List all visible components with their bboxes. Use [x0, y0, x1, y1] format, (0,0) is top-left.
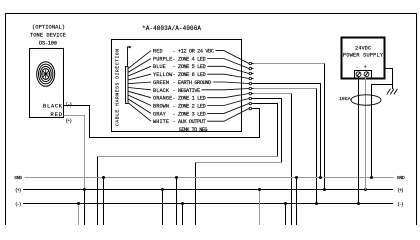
harness direction arrow — [128, 46, 132, 67]
svg-text:-: - — [173, 119, 176, 125]
svg-text:RED: RED — [51, 112, 63, 118]
svg-text:-: - — [173, 56, 176, 62]
wire R10 white aux to tone device black — [64, 106, 260, 138]
speaker symbol — [37, 62, 55, 87]
tone device DS-100 box — [30, 49, 64, 118]
18GA wire gauge ellipse — [351, 95, 381, 105]
wire R7 orange zone1 drop — [291, 94, 293, 226]
svg-text:-: - — [173, 49, 176, 55]
drop from plus x162 — [162, 190, 164, 226]
svg-text:*A-4003A/A-4006A: *A-4003A/A-4006A — [142, 25, 201, 32]
tone device terminal labels — [43, 101, 72, 123]
minus bus — [23, 203, 393, 205]
svg-text:YELLOW: YELLOW — [153, 72, 173, 78]
wire R5 green earth — [254, 84, 321, 178]
svg-text:BLACK: BLACK — [153, 88, 170, 94]
svg-text:GRAY: GRAY — [153, 111, 167, 117]
row tail wires to terminals — [202, 51, 249, 122]
svg-text:(-): (-) — [66, 101, 73, 107]
svg-text:-: - — [356, 65, 359, 71]
wire R7 orange zone1 horizontal — [254, 93, 292, 95]
svg-text:ORANGE: ORANGE — [153, 96, 172, 102]
plus bus — [23, 189, 393, 191]
svg-text:-: - — [173, 96, 176, 102]
drop from GND x176 — [176, 178, 178, 226]
psu minus wire to minus bus — [359, 69, 393, 204]
svg-text:GND: GND — [397, 175, 405, 181]
svg-text:-: - — [173, 80, 176, 86]
svg-text:RED: RED — [153, 49, 163, 55]
svg-text:-: - — [173, 111, 176, 117]
annunciator A-4003A/A-4006A box — [112, 40, 242, 132]
wire colour legend rows — [153, 49, 214, 133]
svg-text:-: - — [173, 64, 176, 70]
harness connector bar — [126, 67, 129, 104]
svg-text:(-): (-) — [397, 201, 404, 207]
GND bus — [23, 178, 394, 204]
svg-text:(+): (+) — [15, 187, 22, 193]
svg-text:POWER SUPPLY: POWER SUPPLY — [343, 52, 384, 58]
psu earth wire — [372, 69, 393, 178]
wire R6 black negative vertical to minus bus — [316, 89, 318, 204]
wire R1 red +V vertical to plus bus — [324, 64, 326, 190]
svg-text:24VDC: 24VDC — [355, 45, 371, 51]
wire R6 black negative horizontal — [254, 88, 317, 90]
svg-text:DS-100: DS-100 — [39, 40, 57, 46]
svg-text:+: + — [364, 65, 367, 71]
svg-text:ZONE 2 LED: ZONE 2 LED — [178, 104, 206, 110]
svg-text:ZONE 1 LED: ZONE 1 LED — [178, 96, 206, 102]
svg-text:18GA: 18GA — [339, 96, 351, 102]
wire R8 brown zone2 — [254, 99, 282, 163]
svg-text:(OPTIONAL): (OPTIONAL) — [32, 25, 65, 31]
svg-text:NEGATIVE: NEGATIVE — [178, 88, 200, 94]
svg-text:(-): (-) — [15, 201, 22, 207]
svg-text:(+): (+) — [397, 187, 404, 193]
wire tone device red to plus bus — [64, 116, 85, 190]
psu plus wire to plus bus — [365, 76, 367, 189]
junction dots — [77, 176, 373, 205]
drop from plus x259 gray — [259, 190, 261, 226]
drop wire from minus bus x78 — [79, 178, 297, 226]
psu terminal block — [355, 71, 372, 79]
24VDC power supply box — [342, 38, 385, 79]
bus labels — [14, 175, 405, 207]
connector fan wires — [128, 51, 151, 122]
svg-text:EARTH GROUND: EARTH GROUND — [178, 80, 211, 86]
svg-text:-: - — [173, 88, 176, 94]
svg-text:ZONE 3 LED: ZONE 3 LED — [178, 111, 206, 117]
drop from minus x285 — [285, 204, 287, 226]
svg-text:WHITE: WHITE — [153, 119, 169, 125]
svg-text:-: - — [173, 104, 176, 110]
wire R9 gray zone3 — [254, 104, 278, 157]
svg-text:BLACK: BLACK — [43, 103, 63, 109]
svg-text:+12 OR 24 VDC: +12 OR 24 VDC — [178, 49, 214, 55]
svg-text:CABLE HARNESS DIRECTION: CABLE HARNESS DIRECTION — [115, 49, 121, 126]
svg-text:(+): (+) — [66, 118, 73, 124]
svg-text:GND: GND — [14, 175, 22, 181]
wire R1 red +V horizontal — [64, 64, 325, 226]
drop from GND x296 — [296, 178, 298, 226]
svg-text:TONE DEVICE: TONE DEVICE — [30, 33, 66, 39]
earth ground symbol — [387, 89, 398, 95]
svg-text:GREEN: GREEN — [153, 80, 169, 86]
terminal pins — [249, 62, 254, 110]
svg-text:PURPLE: PURPLE — [153, 56, 172, 62]
drop from minus x182 — [182, 204, 184, 226]
svg-text:ZONE 6 LED: ZONE 6 LED — [178, 72, 206, 78]
svg-text:-: - — [173, 72, 176, 78]
svg-text:BROWN: BROWN — [153, 104, 169, 110]
svg-text:ZONE 5 LED: ZONE 5 LED — [178, 64, 206, 70]
svg-text:SINK TO NEG: SINK TO NEG — [179, 127, 208, 133]
tone device labels — [30, 25, 66, 47]
svg-text:AUX OUTPUT: AUX OUTPUT — [178, 119, 206, 125]
drop from GND x103 — [103, 178, 105, 226]
svg-text:BLUE: BLUE — [153, 64, 166, 70]
svg-text:ZONE 4 LED: ZONE 4 LED — [178, 56, 206, 62]
